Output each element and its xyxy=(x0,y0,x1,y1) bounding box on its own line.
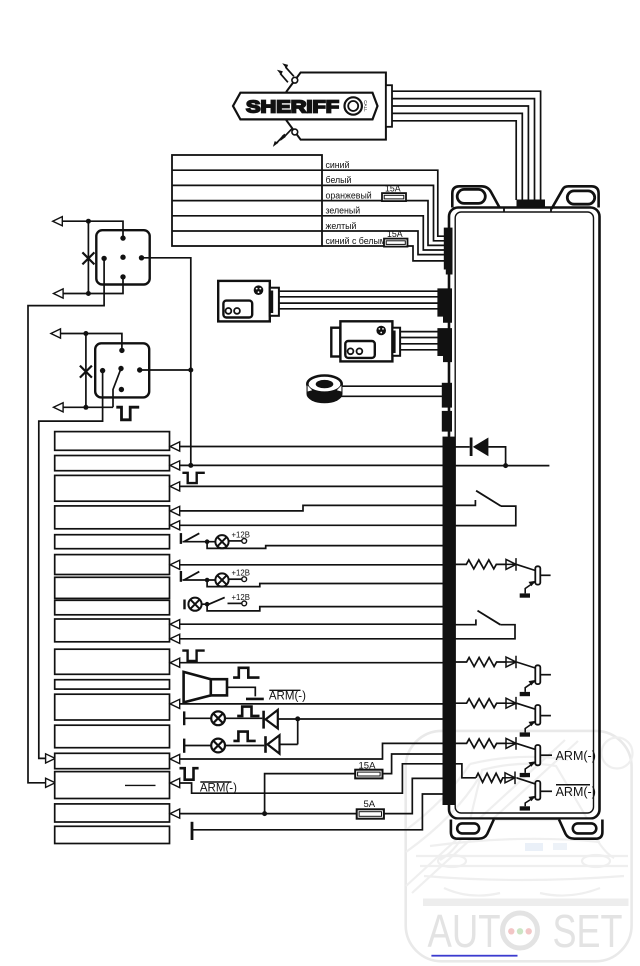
wire row14 xyxy=(180,743,444,759)
K2 pin bottom xyxy=(119,387,124,392)
unit U1 outer case xyxy=(449,208,600,819)
T4 resistor xyxy=(455,739,507,748)
svg-text:синий: синий xyxy=(326,160,350,170)
T5 base wire xyxy=(517,778,536,784)
M2 speaker circle xyxy=(376,326,386,336)
T3 base wire xyxy=(517,703,536,709)
internal switch S1 wire xyxy=(455,500,476,505)
svg-text:ARM(-): ARM(-) xyxy=(556,785,596,799)
watermark AUTO SET text xyxy=(428,905,623,957)
pulse symbol under K2 xyxy=(116,407,139,420)
top edge tick right xyxy=(550,208,552,212)
arrow K2 top xyxy=(51,329,61,338)
K2 switch blade xyxy=(113,369,121,408)
K1 pin top xyxy=(120,235,125,240)
row box 12 xyxy=(55,694,170,720)
LED1 bulb xyxy=(211,711,225,725)
arrow row9a xyxy=(170,620,180,629)
connector block CN1 xyxy=(444,228,453,270)
table row line 4 xyxy=(172,215,322,217)
LED1 wire in xyxy=(184,717,211,719)
T2 collector stub xyxy=(540,674,551,676)
row box 11 xyxy=(55,680,170,689)
arrow row1 xyxy=(170,442,180,451)
T5 emitter xyxy=(525,797,535,807)
T2 emitter pad xyxy=(520,692,530,696)
junction K2 bottom xyxy=(83,405,88,410)
M2 inner block xyxy=(345,341,375,358)
junction K1 top xyxy=(86,219,91,224)
watermark blue window tint xyxy=(525,843,543,851)
T5 resistor xyxy=(476,773,505,782)
wire K2 left pin to left bus xyxy=(39,371,103,759)
row box 6 xyxy=(55,555,170,575)
row box 14 xyxy=(55,753,170,768)
pulse symbol LED2 xyxy=(233,732,255,741)
K2 pin center xyxy=(118,366,123,371)
wire синий с белым left xyxy=(322,245,384,247)
svg-text:AUT: AUT xyxy=(428,905,501,957)
T4 base wire xyxy=(517,743,536,749)
wire lampB to unit xyxy=(207,580,444,587)
row box 16 xyxy=(55,804,170,822)
svg-text:SET: SET xyxy=(553,905,623,957)
pulse symbol row15 xyxy=(180,768,199,780)
unit foot right xyxy=(559,820,602,839)
M2 wire 3 xyxy=(400,343,438,345)
tab left hole xyxy=(457,189,485,203)
wire K2 right pin to bus xyxy=(140,369,191,371)
antenna wire 3 xyxy=(392,106,528,200)
wire белый xyxy=(322,185,444,240)
lampB terminal bar xyxy=(180,571,182,582)
wire D1 out xyxy=(488,447,505,466)
LED flash arrow 2 xyxy=(280,73,288,82)
fuse F2 inner xyxy=(386,241,405,245)
row box 2 xyxy=(55,456,170,471)
LED2 wire out xyxy=(280,743,298,745)
svg-text:белый: белый xyxy=(326,175,352,185)
arrow K1 bottom xyxy=(54,289,64,298)
internal switch S2 wire xyxy=(455,619,476,624)
connector block CN5 xyxy=(442,411,452,432)
LED ring wire 1 xyxy=(342,385,443,387)
wire F4 to unit xyxy=(384,778,444,813)
M2 wire 1 xyxy=(400,331,438,333)
internal diode D1 wire in xyxy=(455,446,470,448)
antenna connector xyxy=(386,85,392,127)
fuse F1 inner xyxy=(384,195,404,199)
wire row17 xyxy=(192,794,444,830)
unit U1 inner case xyxy=(455,212,593,813)
arrow K1 top xyxy=(53,217,63,226)
S1 return wire xyxy=(455,506,516,525)
unit foot left xyxy=(451,820,494,839)
watermark gray bar xyxy=(423,899,629,907)
lampC +12 terminal xyxy=(242,601,247,606)
svg-text:желтый: желтый xyxy=(326,221,357,231)
lampB +12 terminal xyxy=(242,577,247,582)
T1 diode xyxy=(506,558,516,571)
junction K2 top xyxy=(83,331,88,336)
S2 blade xyxy=(478,611,501,625)
T1 emitter pad xyxy=(520,593,530,597)
wire row15 xyxy=(180,764,444,793)
S2 return wire xyxy=(455,625,516,639)
svg-text:зеленый: зеленый xyxy=(326,206,361,216)
foot left hole xyxy=(457,823,479,833)
T1 plate xyxy=(535,566,540,584)
watermark car art xyxy=(406,738,633,896)
row box 9 xyxy=(55,619,170,642)
antenna wire 2 xyxy=(392,99,535,200)
svg-text:оранжевый: оранжевый xyxy=(326,190,372,200)
LED1 wire out xyxy=(278,718,444,720)
siren ground bar xyxy=(246,698,264,701)
svg-text:ARM(-): ARM(-) xyxy=(269,691,306,703)
T4 collector stub xyxy=(540,754,552,756)
fuse F3 inner xyxy=(358,772,381,776)
watermark O ring xyxy=(503,913,538,948)
T3 collector stub xyxy=(540,715,551,717)
table row line 3 xyxy=(172,200,322,202)
antenna wire 1 xyxy=(392,91,541,200)
S1 blade xyxy=(476,491,501,506)
arrow row9b xyxy=(170,634,180,643)
wire lampA to unit xyxy=(207,542,444,549)
wire синий с белым right xyxy=(408,246,445,261)
junction row2 bus xyxy=(188,463,193,468)
diode D3 bar xyxy=(264,736,267,753)
T3 resistor xyxy=(455,699,507,708)
wire row16 xyxy=(180,813,357,815)
wire F3 to unit xyxy=(383,754,445,774)
relay K2 box xyxy=(95,343,149,397)
wire row1 xyxy=(180,446,444,448)
diode D2 bar xyxy=(262,711,265,729)
svg-text:ARM(-): ARM(-) xyxy=(200,782,237,794)
lampB wire to junction xyxy=(183,579,216,581)
wire K1 bottom pin down xyxy=(63,277,123,294)
lampB switch blade xyxy=(184,572,199,580)
arrow row6 xyxy=(170,560,180,569)
junction K2 right bus xyxy=(188,368,193,373)
M2 wire 2 xyxy=(400,337,438,339)
connector block CN4 xyxy=(442,383,452,408)
wire оранжевый right xyxy=(406,201,444,246)
M1 wire 4 xyxy=(279,308,438,310)
antenna label hexagon xyxy=(233,93,378,120)
svg-text:ARM(-): ARM(-) xyxy=(556,749,596,763)
link underline xyxy=(431,955,517,957)
T4 emitter pad xyxy=(520,773,530,777)
LED flash arrow 1 xyxy=(286,67,294,76)
wire row12 xyxy=(180,703,444,705)
CN1 lower tab xyxy=(446,270,453,275)
module M2 body xyxy=(340,321,392,361)
diode D1 bar xyxy=(470,438,473,457)
T3 diode xyxy=(506,697,516,710)
unit top connector block xyxy=(517,200,546,208)
row box 7 xyxy=(55,577,170,598)
arrow into row14 left xyxy=(46,754,56,763)
lampA wire to +12 terminal xyxy=(229,540,242,542)
pulse symbol row3 xyxy=(182,473,204,483)
dash in row15 xyxy=(125,784,156,786)
wire row6 xyxy=(180,564,444,566)
overline ARM T5 xyxy=(556,784,590,786)
wire оранжевый left xyxy=(322,200,382,202)
T4 emitter xyxy=(525,762,535,773)
junction row16 xyxy=(262,811,267,816)
main connector bar xyxy=(443,437,455,805)
wire K1 top pin up xyxy=(62,221,123,238)
call button inner xyxy=(348,101,358,111)
svg-text:+12В: +12В xyxy=(232,593,250,602)
T1 base wire xyxy=(517,564,536,570)
antenna wire 4 xyxy=(392,113,522,200)
LED ring top face xyxy=(307,376,341,393)
svg-text:CALL: CALL xyxy=(363,100,368,112)
wire row4a xyxy=(180,505,444,511)
wire K2 bottom arrow xyxy=(63,406,113,408)
lampA switch blade xyxy=(184,533,199,541)
LED ring wire 2 xyxy=(339,395,443,397)
wire row2 xyxy=(180,464,444,466)
K1 pin center xyxy=(120,255,125,260)
M1 connector xyxy=(270,288,279,316)
T2 emitter xyxy=(525,681,535,692)
arrow into row15 left xyxy=(46,778,56,787)
arrow K2 bottom xyxy=(54,403,64,412)
fuse F4 inner xyxy=(359,812,381,817)
M2 button 2 xyxy=(357,348,363,354)
arrow row2 xyxy=(170,461,180,470)
svg-text:5A: 5A xyxy=(364,799,376,810)
junction K1 bottom xyxy=(86,291,91,296)
lampC wire to +12 terminal xyxy=(228,602,242,604)
T4 diode xyxy=(506,737,516,750)
T5 feed wire xyxy=(455,764,476,778)
arrow row12 xyxy=(170,699,180,708)
foot right hole xyxy=(573,823,597,833)
T1 emitter xyxy=(525,582,535,594)
unit U1 mounting tab right xyxy=(552,186,599,209)
wire 15A branch xyxy=(265,774,356,814)
fuse F1 15A outer xyxy=(382,193,406,201)
M1 connector shade xyxy=(270,291,273,314)
LED flash arrow 3 xyxy=(284,128,293,137)
T3 plate xyxy=(535,705,540,725)
T5 emitter pad xyxy=(520,806,530,810)
arrow row15 xyxy=(170,778,180,787)
watermark border xyxy=(406,731,632,961)
wire K2 top pin up xyxy=(61,334,122,351)
T5 plate xyxy=(535,781,540,800)
module M1 body xyxy=(218,281,270,322)
arrow row4a xyxy=(170,506,180,515)
LED ring hole xyxy=(316,380,334,388)
lampC wire to junction xyxy=(202,603,210,605)
wire K1 right pin bus xyxy=(142,258,191,466)
T2 resistor xyxy=(455,658,507,667)
table row line 2 xyxy=(172,184,322,186)
row box 8 xyxy=(55,600,170,615)
K1 pin bottom xyxy=(120,274,125,279)
svg-text:синий с белым: синий с белым xyxy=(326,236,386,246)
M1 wire 3 xyxy=(279,302,438,304)
lampA bulb xyxy=(215,535,228,548)
module M2 left tab xyxy=(331,328,340,357)
LED flash arrow 4 xyxy=(276,134,285,143)
wire K1 coil bus vertical xyxy=(87,221,89,293)
wire LED join vertical xyxy=(297,719,299,745)
arrow row14 xyxy=(170,754,180,763)
T2 base wire xyxy=(517,662,536,668)
LED2 bulb xyxy=(211,739,225,753)
tab right hole xyxy=(567,191,594,204)
K2 pin right xyxy=(137,367,142,372)
LED2 terminal dash xyxy=(183,739,185,753)
wire row9a xyxy=(180,623,444,625)
wire синий xyxy=(322,170,444,236)
lampC bulb xyxy=(188,598,201,611)
diode D2 triangle xyxy=(266,710,278,729)
LED1 terminal dash xyxy=(183,711,185,725)
junction D1 xyxy=(503,463,508,468)
antenna module body xyxy=(287,73,386,140)
arrow row3 xyxy=(170,482,180,491)
junction lampB xyxy=(205,578,210,583)
row box 5 xyxy=(55,535,170,549)
table row line 1 xyxy=(172,169,322,171)
T1 collector stub xyxy=(540,574,550,576)
T3 emitter pad xyxy=(520,732,530,736)
antenna wire 5 xyxy=(392,121,516,200)
M2 speaker holes xyxy=(379,328,384,333)
LED ring body bottom xyxy=(307,384,343,403)
LED1 wire mid xyxy=(225,717,262,719)
antenna LED bump bottom xyxy=(292,129,298,135)
connector table box xyxy=(172,155,322,246)
svg-text:15A: 15A xyxy=(385,184,401,194)
T3 emitter xyxy=(525,722,535,733)
fuse F3 15A outer xyxy=(355,770,382,779)
svg-text:+12В: +12В xyxy=(232,530,250,539)
internal wire constant xyxy=(455,465,550,467)
M2 button 1 xyxy=(348,348,354,354)
arrow row10 xyxy=(170,658,180,667)
unit U1 mounting tab left xyxy=(452,186,499,207)
pulse symbol row10 xyxy=(182,651,204,661)
M1 button 2 xyxy=(234,308,240,314)
svg-text:+12В: +12В xyxy=(232,569,250,578)
main unit body fill (under watermark) xyxy=(449,208,600,819)
T5 diode xyxy=(505,772,515,785)
diode D3 triangle xyxy=(268,735,280,753)
row box 17 xyxy=(55,826,170,843)
lampA terminal bar xyxy=(180,533,182,544)
wire row3 xyxy=(180,485,444,487)
arrow row4b xyxy=(170,521,180,530)
lampA wire to junction xyxy=(183,541,216,543)
pulse symbol siren xyxy=(233,668,259,678)
relay K1 box xyxy=(96,230,149,284)
K1 pin left xyxy=(101,256,106,261)
M1 speaker circle xyxy=(254,285,264,295)
M1 wire 2 xyxy=(279,296,438,298)
top edge tick left xyxy=(503,208,505,212)
wire желтый xyxy=(322,231,444,255)
fuse F4 5A outer xyxy=(357,809,384,818)
table row line 5 xyxy=(172,230,322,232)
junction lampA xyxy=(205,539,210,544)
wire K2 coil bus vertical xyxy=(85,334,87,408)
row box 10 xyxy=(55,649,170,674)
row box 3 xyxy=(55,475,170,501)
ink layer xyxy=(28,63,602,843)
diode D1 triangle xyxy=(473,438,489,457)
row box 15 xyxy=(55,772,170,799)
row17 terminal bar xyxy=(191,822,194,840)
lampB wire to +12 terminal xyxy=(229,578,242,580)
arrow row16 xyxy=(170,809,180,818)
siren driver xyxy=(211,679,227,695)
wire K1 left pin to left bus xyxy=(28,258,104,782)
M1 inner block xyxy=(223,301,252,318)
fuse F2 15A outer xyxy=(384,239,408,247)
connector block CN2 xyxy=(437,288,452,322)
junction LED xyxy=(295,716,300,721)
watermark O dots xyxy=(508,928,532,934)
svg-text:15A: 15A xyxy=(387,229,403,239)
LED2 wire in xyxy=(184,745,211,747)
antenna LED bump top xyxy=(292,77,298,83)
M1 button 1 xyxy=(226,308,232,314)
K1 pin right xyxy=(139,255,144,260)
wire row10 xyxy=(180,662,444,664)
M1 wire 1 xyxy=(279,290,438,292)
T5 collector stub xyxy=(540,790,552,792)
T1 resistor xyxy=(455,560,507,569)
X mark K2 xyxy=(80,366,92,378)
lampC terminal bar xyxy=(183,600,185,610)
wire siren xyxy=(227,687,255,696)
T2 diode xyxy=(506,656,516,669)
LED2 wire mid xyxy=(225,745,264,747)
wire lampC to unit xyxy=(207,604,444,611)
wire row4b xyxy=(180,524,444,526)
K2 pin left xyxy=(100,368,105,373)
pulse symbol LED1 xyxy=(237,707,259,716)
K2 pin top xyxy=(119,348,124,353)
junction lampC xyxy=(205,602,210,607)
lampA +12 terminal xyxy=(242,539,247,544)
overline ARM siren xyxy=(269,689,300,691)
overline ARM row15 xyxy=(200,781,231,783)
M2 connector shade xyxy=(392,331,395,354)
lampC switch blade xyxy=(209,597,225,604)
call button outer xyxy=(345,97,362,114)
svg-text:SHERIFF: SHERIFF xyxy=(246,97,339,117)
wire row9b xyxy=(180,638,444,640)
T2 plate xyxy=(535,665,540,684)
row box 1 xyxy=(55,432,170,451)
M2 wire 4 xyxy=(400,349,438,351)
row box 13 xyxy=(55,725,170,748)
row box 4 xyxy=(55,506,170,529)
wire зеленый xyxy=(322,216,444,250)
